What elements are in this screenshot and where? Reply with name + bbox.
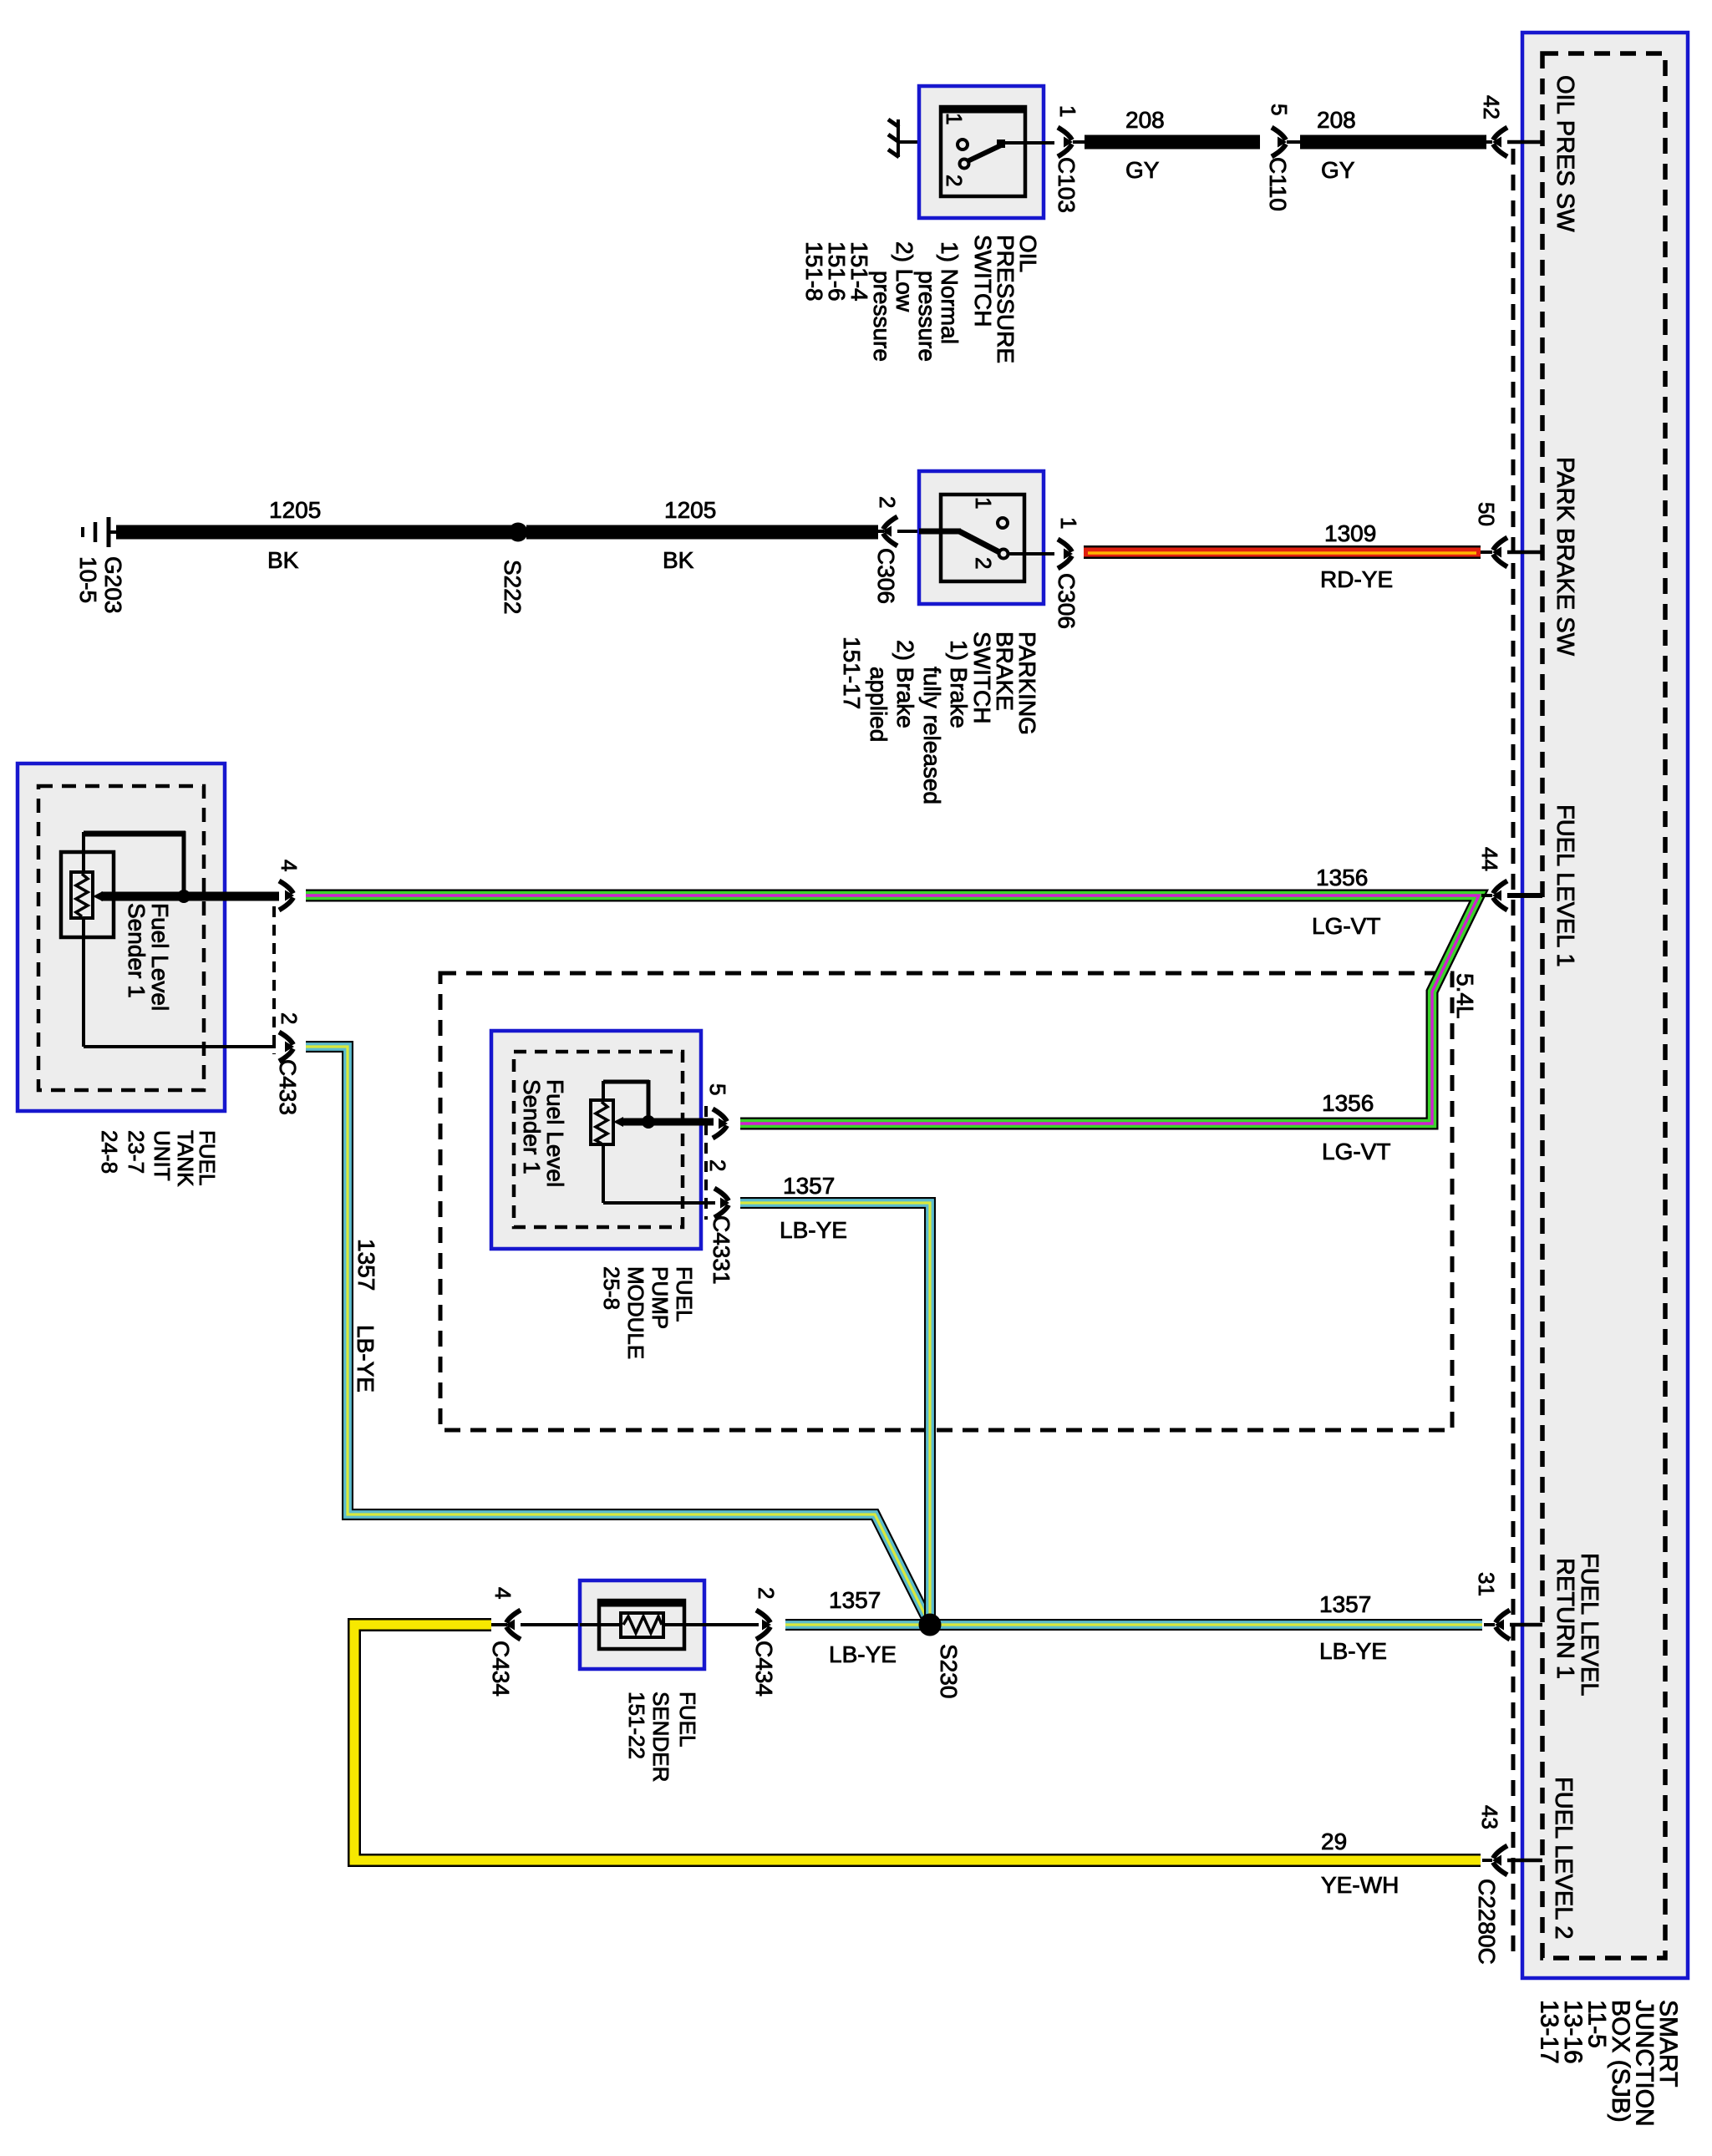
svg-text:LG-VT: LG-VT [1312,913,1380,939]
fuel sender box [580,1580,704,1669]
switch fixed contact [998,518,1008,528]
svg-text:1356: 1356 [1322,1090,1374,1116]
svg-text:151-8: 151-8 [801,241,827,302]
svg-text:5: 5 [1267,104,1292,115]
svg-text:1357: 1357 [829,1587,881,1613]
svg-text:C103: C103 [1054,157,1080,213]
splice S222 [509,523,528,542]
switch lever [919,529,961,535]
connector C4331 pin 2 [714,1189,729,1201]
svg-text:LB-YE: LB-YE [353,1325,378,1393]
parking brake switch box [919,471,1044,604]
switch lever [968,145,1001,161]
svg-text:44: 44 [1477,847,1502,871]
wire 1309 RD-YE [1084,545,1481,559]
wiper arrow [93,891,103,901]
svg-text:LB-YE: LB-YE [1319,1638,1387,1664]
svg-text:FUEL LEVEL 2: FUEL LEVEL 2 [1550,1777,1577,1940]
svg-text:C306: C306 [873,548,899,604]
resistor (FPM sender) [591,1100,613,1144]
svg-text:C4331: C4331 [709,1215,734,1285]
svg-text:1357: 1357 [353,1239,379,1291]
svg-text:208: 208 [1125,107,1165,133]
connector C4331 pin 5 [713,1109,727,1122]
svg-text:MODULE: MODULE [623,1266,648,1359]
svg-text:SENDER: SENDER [648,1692,673,1782]
svg-text:13-17: 13-17 [1536,2000,1563,2064]
svg-text:OIL PRES SW: OIL PRES SW [1552,75,1578,232]
connector C433 pin 4 [279,881,293,894]
svg-text:G203: G203 [100,556,126,614]
smart junction box SJB outline [1522,33,1688,1978]
svg-text:PARK BRAKE SW: PARK BRAKE SW [1552,457,1578,657]
svg-text:PUMP: PUMP [648,1266,673,1329]
svg-text:LG-VT: LG-VT [1322,1139,1390,1164]
wire 1357 LB-YE from fuel tank unit [306,1047,930,1625]
SJB pin 31 [1484,1623,1495,1626]
svg-text:1357: 1357 [783,1173,835,1199]
svg-text:GY: GY [1321,157,1355,183]
wire 1357 LB-YE fuel sender to SJB pin 31 [785,1619,1482,1631]
svg-text:208: 208 [1317,107,1356,133]
connector C433 pin 2 [279,1032,293,1045]
svg-text:GY: GY [1125,157,1160,183]
svg-text:1: 1 [971,497,996,509]
connector C110 [1272,128,1286,140]
svg-text:RD-YE: RD-YE [1320,566,1393,592]
svg-text:Sender 1: Sender 1 [124,903,150,998]
svg-text:C2280C: C2280C [1474,1879,1500,1965]
wire 208 GY segment 1 [1085,135,1260,150]
connector C2280C dashed line [1511,149,1516,1958]
fuel tank unit box [18,763,225,1111]
svg-text:1205: 1205 [664,497,716,523]
svg-text:29: 29 [1321,1829,1347,1854]
svg-text:C434: C434 [751,1641,777,1697]
svg-text:2: 2 [705,1159,730,1171]
svg-text:2: 2 [754,1587,779,1599]
svg-text:RETURN 1: RETURN 1 [1552,1558,1578,1679]
svg-text:C434: C434 [488,1641,514,1697]
svg-text:FUEL LEVEL 1: FUEL LEVEL 1 [1552,804,1578,967]
svg-text:C110: C110 [1265,157,1291,211]
svg-text:43: 43 [1477,1805,1502,1829]
oil pressure switch box [919,86,1044,218]
svg-text:151-17: 151-17 [839,637,865,709]
svg-text:UNIT: UNIT [150,1130,175,1181]
svg-text:Fuel Level: Fuel Level [147,903,173,1011]
svg-text:2: 2 [971,557,996,569]
svg-text:Sender 1: Sender 1 [519,1079,545,1174]
svg-text:10-5: 10-5 [75,556,101,603]
svg-text:SWITCH: SWITCH [970,235,996,327]
svg-text:25-8: 25-8 [599,1266,624,1310]
svg-text:TANK: TANK [173,1130,198,1187]
svg-text:151-22: 151-22 [624,1692,649,1759]
svg-text:2: 2 [277,1012,302,1024]
splice S230 [919,1614,942,1636]
svg-text:FUEL LEVEL: FUEL LEVEL [1576,1553,1603,1696]
fuel pump module box [491,1031,701,1249]
SJB inner dashed border [1542,53,1665,1958]
connector C4331 dashed line [704,1106,708,1220]
FTU internal wiring [101,892,279,901]
wire switch to C306 pin 1 [1008,552,1054,555]
svg-text:S222: S222 [500,560,526,614]
FPM internal wiring [622,1119,714,1126]
svg-text:4: 4 [490,1587,516,1599]
svg-text:31: 31 [1474,1572,1499,1596]
wire switch to C103 [1005,141,1054,145]
svg-text:5.4L: 5.4L [1452,973,1478,1019]
svg-text:BK: BK [267,547,299,573]
SJB pin 44 [1481,894,1492,897]
svg-text:1: 1 [942,113,967,124]
svg-text:2: 2 [942,175,967,186]
5.4L variant dashed box [440,973,1452,1430]
wire 1356 LG-VT [306,895,1479,1124]
resistor (fuel sender) [580,1623,759,1626]
svg-text:1356: 1356 [1316,865,1368,890]
svg-text:1357: 1357 [1319,1591,1371,1617]
svg-text:S230: S230 [936,1644,962,1698]
svg-text:C433: C433 [275,1059,301,1115]
SJB pin 43 [1482,1859,1492,1862]
svg-text:YE-WH: YE-WH [1321,1872,1399,1898]
wire 1205 BK segment 2 [526,525,878,540]
wire 208 GY segment 2 [1300,135,1486,150]
svg-text:SWITCH: SWITCH [969,632,995,723]
ground G203 [109,530,119,534]
svg-text:1: 1 [1056,517,1081,529]
svg-text:23-7: 23-7 [124,1130,149,1174]
connector C434 pin 4 [491,1623,507,1626]
wire 29 YE-WH [354,1625,1481,1860]
connector C103 [1058,128,1072,140]
svg-text:Fuel Level: Fuel Level [542,1079,568,1187]
svg-text:5: 5 [705,1083,730,1095]
connector C433 dashed line [272,906,276,1054]
svg-text:24-8: 24-8 [97,1130,122,1174]
resistor (FTU sender) [71,872,93,918]
svg-text:applied: applied [866,667,892,742]
svg-text:fully released: fully released [919,667,945,804]
wire 1205 BK segment 1 [116,525,518,540]
svg-text:4: 4 [277,860,302,871]
connector C306 pin 2 [878,530,884,533]
svg-text:1309: 1309 [1324,520,1376,546]
svg-text:1) Brake: 1) Brake [946,640,972,728]
svg-text:1: 1 [1055,105,1080,117]
fuel level sender 1 (FTU) outline [61,852,114,937]
switch contact 2 [960,160,969,169]
svg-text:2) Brake: 2) Brake [892,640,918,728]
SJB pin 42 [1486,140,1492,144]
svg-text:1205: 1205 [269,497,321,523]
connector C306 pin 1 [1058,540,1072,552]
wire ground to switch [900,140,958,144]
svg-text:FUEL: FUEL [675,1692,700,1747]
svg-text:C306: C306 [1054,573,1080,629]
SJB pin 50 [1481,550,1492,554]
svg-text:2: 2 [875,496,900,508]
wiper arrow [613,1117,623,1127]
wire 1357 LB-YE from fuel pump module [740,1203,930,1625]
svg-text:BK: BK [663,547,694,573]
svg-text:LB-YE: LB-YE [829,1641,897,1667]
svg-text:LB-YE: LB-YE [780,1217,847,1243]
svg-text:42: 42 [1479,95,1504,119]
connector C434 pin 2 [756,1611,770,1623]
ground (oil pressure switch) [897,119,900,157]
svg-text:50: 50 [1474,502,1499,526]
svg-text:FUEL: FUEL [672,1266,697,1322]
